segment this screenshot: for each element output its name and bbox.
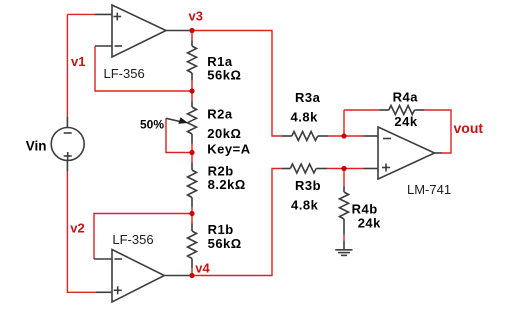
svg-text:24k: 24k xyxy=(358,216,381,231)
svg-text:56kΩ: 56kΩ xyxy=(208,236,242,251)
svg-text:v2: v2 xyxy=(70,221,84,236)
svg-text:R4a: R4a xyxy=(393,90,419,105)
svg-text:R1b: R1b xyxy=(208,222,234,237)
svg-text:LF-356: LF-356 xyxy=(112,232,153,247)
svg-text:R2a: R2a xyxy=(207,107,233,122)
svg-text:vout: vout xyxy=(454,120,484,136)
svg-text:50%: 50% xyxy=(140,118,164,132)
svg-text:20kΩ: 20kΩ xyxy=(207,126,241,141)
svg-text:v1: v1 xyxy=(71,54,85,69)
svg-text:4.8k: 4.8k xyxy=(291,110,319,125)
svg-text:Vin: Vin xyxy=(26,139,47,154)
svg-text:4.8k: 4.8k xyxy=(291,198,319,213)
svg-text:v4: v4 xyxy=(195,260,210,275)
svg-text:56kΩ: 56kΩ xyxy=(207,68,241,83)
svg-text:R4b: R4b xyxy=(352,202,378,217)
svg-text:R3a: R3a xyxy=(295,90,321,105)
svg-text:8.2kΩ: 8.2kΩ xyxy=(208,177,246,192)
svg-text:Key=A: Key=A xyxy=(207,142,250,157)
svg-text:24k: 24k xyxy=(394,114,417,129)
svg-text:v3: v3 xyxy=(189,8,203,23)
svg-text:LM-741: LM-741 xyxy=(407,182,451,197)
svg-text:R3b: R3b xyxy=(295,178,321,193)
svg-text:LF-356: LF-356 xyxy=(104,66,145,81)
